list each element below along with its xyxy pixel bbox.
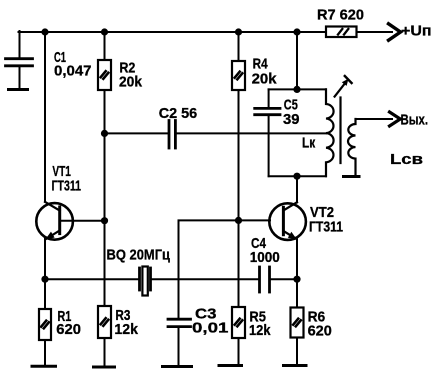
svg-text:C2 56: C2 56 xyxy=(159,105,198,122)
junction VT2 base xyxy=(235,217,242,224)
label +Un xyxy=(401,23,432,40)
junction rail tank xyxy=(293,28,300,35)
junction C2 tap xyxy=(101,130,108,137)
core line xyxy=(339,98,341,164)
label R3 12k xyxy=(114,307,138,338)
label Вых. xyxy=(401,112,429,129)
wire VT2 base lead xyxy=(239,219,271,221)
transistor VT2 xyxy=(269,202,306,240)
label C2 56 xyxy=(159,105,198,122)
label R6 620 xyxy=(308,309,332,340)
svg-text:12k: 12k xyxy=(249,322,271,339)
ground R5 xyxy=(219,364,242,367)
inductor Lk xyxy=(326,89,334,176)
wire bias line R2 top xyxy=(104,32,106,60)
svg-text:12k: 12k xyxy=(114,321,138,338)
wire C2 line right to Lk tap xyxy=(177,132,326,134)
svg-text:ГТ311: ГТ311 xyxy=(52,178,82,195)
svg-text:620: 620 xyxy=(56,321,81,338)
label R1 620 xyxy=(56,308,81,338)
label C1 0,047 xyxy=(54,49,92,80)
label C3 0,01 xyxy=(192,306,229,337)
svg-text:Lк: Lк xyxy=(302,135,316,152)
label Lk xyxy=(302,135,316,152)
wire bias line R4 top xyxy=(238,32,240,61)
wire R6 bottom lead xyxy=(296,338,298,366)
wire C4 to VT2 emitter node xyxy=(271,278,297,280)
svg-text:R7 620: R7 620 xyxy=(317,7,364,24)
wire VT2 collector riser xyxy=(296,176,298,202)
svg-text:Lсв: Lсв xyxy=(390,151,423,168)
wire R1 bottom lead xyxy=(44,340,46,366)
resistor R2 xyxy=(98,60,111,90)
wire bias line R2 bottom to R3 xyxy=(104,90,106,306)
wire R6 top lead xyxy=(296,279,298,307)
label C4 1000 xyxy=(250,235,280,266)
wire C5 top lead xyxy=(268,89,270,107)
wire top supply rail xyxy=(19,31,327,33)
wire crystal to C4 xyxy=(152,278,259,280)
capacitor C1 xyxy=(6,59,33,89)
wire C5 bottom lead xyxy=(268,116,270,176)
ground Lsv xyxy=(344,175,360,178)
label R2 20k xyxy=(119,60,143,91)
junction tank top xyxy=(293,86,300,93)
capacitor C5 xyxy=(255,108,280,114)
svg-text:BQ 20МГц: BQ 20МГц xyxy=(107,247,171,264)
junction rail R4 xyxy=(235,28,242,35)
ground R3 xyxy=(94,366,115,369)
resistor R7 xyxy=(326,27,357,38)
wire rail R7 to arrow xyxy=(357,31,393,33)
svg-text:620: 620 xyxy=(308,323,332,340)
transistor VT1 xyxy=(36,202,73,240)
wire VT1 collector riser xyxy=(44,32,46,202)
svg-text:0,047: 0,047 xyxy=(54,63,92,80)
label R4 20k xyxy=(252,56,278,88)
junction rail VT1 xyxy=(41,28,48,35)
arrow output xyxy=(390,112,401,126)
svg-text:1000: 1000 xyxy=(250,249,280,266)
ground C3 xyxy=(163,365,192,368)
label BQ 20МГц xyxy=(107,247,171,264)
wire C2 line left xyxy=(105,132,168,134)
ground R6 xyxy=(284,364,307,367)
wire output xyxy=(356,118,393,120)
label VT1 ГТ311 xyxy=(52,163,82,195)
svg-text:20k: 20k xyxy=(119,74,143,91)
label R5 12k xyxy=(249,309,271,340)
wire bias line R4 bottom to R5 xyxy=(238,90,240,307)
junction VT2 emitter xyxy=(293,276,300,283)
wire R3 bottom lead xyxy=(104,338,106,367)
capacitor C3 xyxy=(168,319,191,366)
svg-text:+Uп: +Uп xyxy=(401,23,432,40)
svg-text:Вых.: Вых. xyxy=(401,112,429,129)
junction rail R2 xyxy=(101,28,108,35)
resistor R1 xyxy=(39,309,51,340)
arrow supply xyxy=(389,24,401,40)
label VT2 ГТ311 xyxy=(309,204,343,236)
wire C1 stub xyxy=(19,31,21,58)
junction VT1 base xyxy=(101,217,108,224)
svg-text:ГТ311: ГТ311 xyxy=(309,219,343,236)
junction VT1 emitter xyxy=(41,276,48,283)
ground C1 xyxy=(9,88,28,91)
wire VT2 emitter drop xyxy=(296,239,298,279)
wire R1 top lead xyxy=(44,279,46,309)
label R7 620 xyxy=(317,7,364,24)
wire tank top xyxy=(269,88,326,90)
wire tank bottom xyxy=(269,175,326,177)
capacitor C4 xyxy=(260,267,270,292)
wire tank riser to rail xyxy=(296,32,298,89)
junction tank bottom xyxy=(293,173,300,180)
adjustment arrow xyxy=(335,76,352,97)
label Lsv xyxy=(390,151,423,168)
ground R1 xyxy=(32,365,56,368)
resistor R3 xyxy=(98,306,111,338)
wire VT2 base bypass jog xyxy=(179,220,239,318)
capacitor C2 xyxy=(169,121,175,149)
resistor R5 xyxy=(232,307,245,338)
resistor R6 xyxy=(291,308,304,338)
wire emitter node to crystal xyxy=(45,278,139,280)
svg-text:0,01: 0,01 xyxy=(192,320,229,337)
wire R5 bottom lead xyxy=(238,338,240,366)
svg-text:20k: 20k xyxy=(252,71,278,88)
inductor Lsv xyxy=(348,119,356,175)
wire VT1 emitter drop xyxy=(44,239,46,279)
wire VT1 base lead xyxy=(61,220,105,222)
svg-text:39: 39 xyxy=(283,111,300,128)
label C5 39 xyxy=(283,97,300,129)
resistor R4 xyxy=(232,61,245,90)
crystal BQ xyxy=(140,267,151,296)
